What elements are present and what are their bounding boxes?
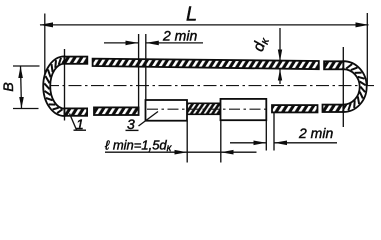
svg-text:1: 1 <box>76 116 84 132</box>
dimension 2 min (top): right line with arrowhead <box>146 42 203 44</box>
dimension l min=1,5dk: left vertical extension line <box>186 121 188 163</box>
dimension B: dimension line <box>21 66 22 109</box>
dimension l min=1,5dk: right vertical extension line <box>220 121 222 163</box>
dimension dk: label <box>250 34 272 54</box>
callout 3: leader line <box>139 112 159 127</box>
dimension 2 min (bottom right): right vertical extension line <box>273 113 275 151</box>
dimension L: right extension line <box>366 13 368 85</box>
right U-bend of capillary (tube wall) <box>343 61 366 112</box>
dimension L: left arrowhead <box>40 22 54 27</box>
capillary bottom bar, left short piece <box>65 108 88 115</box>
right bend tangent line <box>342 47 344 127</box>
capillary top bar, right short piece <box>324 61 343 69</box>
capillary top bar, long piece <box>93 59 319 70</box>
dimension 2 min (top): right vertical extension line <box>145 34 147 100</box>
dimension B: lower arrowhead <box>19 97 24 109</box>
lower leg axis centerline through sleeves <box>147 108 266 110</box>
callout 1: leader line <box>70 114 77 130</box>
dimension 2 min (top): left line with arrowhead <box>104 42 139 44</box>
dimension L: right arrowhead <box>356 22 369 27</box>
dimension dk: upper arrow line <box>279 28 281 61</box>
svg-text:3: 3 <box>127 116 135 132</box>
right U-bend hatch ticks <box>342 64 366 111</box>
callout 1: shelf <box>74 129 87 131</box>
capillary bottom bar, right short piece <box>323 105 344 112</box>
svg-text:ℓ min=1,5dк: ℓ min=1,5dк <box>105 137 173 154</box>
callout 3: shelf <box>126 129 139 131</box>
svg-text:2 min: 2 min <box>298 125 333 141</box>
dimension dk: lower arrow line <box>279 69 281 84</box>
left U-bend hatch ticks <box>44 58 66 114</box>
svg-text:В: В <box>0 82 16 91</box>
dimension l min=1,5dk: left arrowhead <box>175 150 188 155</box>
dimension l min=1,5dk: right arrowhead <box>221 150 234 155</box>
capillary top bar, left short piece <box>65 57 88 64</box>
dimension B: upper arrowhead <box>18 66 23 78</box>
dimension 2 min (top): left vertical extension line <box>138 34 140 115</box>
left U-bend of capillary (tube wall) <box>43 56 64 116</box>
left sleeve (part 3) <box>146 100 188 121</box>
right sleeve <box>221 99 267 120</box>
dimension l min=1,5dk: dimension line <box>105 151 257 153</box>
dimension 2 min (bottom right): left line with arrowhead <box>230 142 266 144</box>
dimension 2 min (bottom right): left vertical extension line <box>265 121 267 151</box>
dimension B: lower extension line <box>13 108 39 110</box>
svg-text:2 min: 2 min <box>162 28 197 44</box>
dimension 2 min (bottom right): right line with arrowhead <box>274 142 337 144</box>
capillary joint piece between sleeves (dense hatch) <box>187 103 221 114</box>
dimension B: upper extension line <box>13 65 40 67</box>
capillary bottom bar, piece ending at sleeve <box>94 107 139 115</box>
dimension L: dimension line <box>40 24 369 26</box>
dimension L: left extension line <box>44 14 46 77</box>
svg-text:L: L <box>186 4 197 26</box>
left bend tangent line <box>64 49 66 121</box>
capillary bottom bar, piece after right sleeve <box>272 105 318 112</box>
main horizontal centerline (axis of loop) <box>46 85 377 87</box>
